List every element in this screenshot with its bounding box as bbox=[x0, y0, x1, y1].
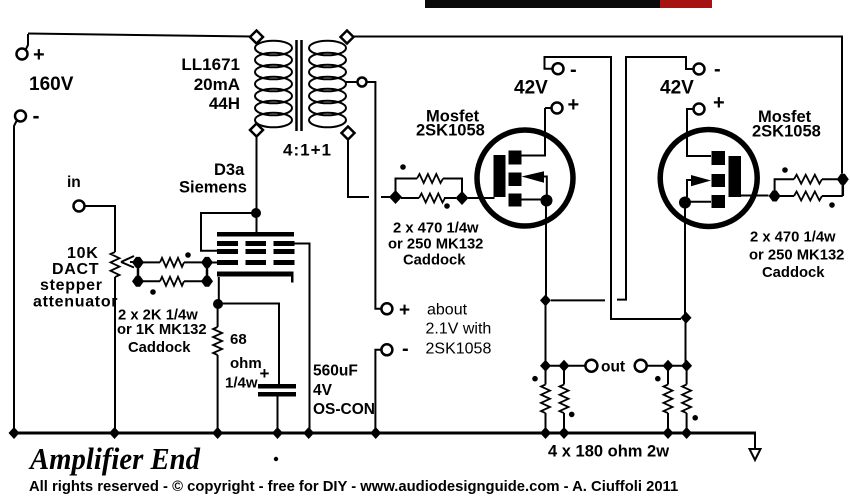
svg-text:-: - bbox=[570, 59, 577, 81]
svg-text:Caddock: Caddock bbox=[128, 340, 191, 356]
svg-text:4:1+1: 4:1+1 bbox=[283, 141, 332, 160]
svg-text:Caddock: Caddock bbox=[762, 265, 825, 281]
svg-text:20mA: 20mA bbox=[194, 75, 240, 94]
svg-text:or 250 MK132: or 250 MK132 bbox=[749, 248, 844, 264]
svg-text:or 250 MK132: or 250 MK132 bbox=[388, 237, 483, 253]
svg-text:68: 68 bbox=[230, 331, 247, 348]
svg-text:4 x 180 ohm 2w: 4 x 180 ohm 2w bbox=[548, 443, 669, 461]
svg-text:Amplifier End: Amplifier End bbox=[28, 442, 201, 476]
svg-text:44H: 44H bbox=[209, 94, 240, 113]
svg-text:All rights reserved - © copyri: All rights reserved - © copyright - free… bbox=[29, 479, 678, 495]
svg-text:+: + bbox=[399, 300, 410, 321]
svg-text:Caddock: Caddock bbox=[403, 253, 466, 269]
svg-text:DACT: DACT bbox=[52, 261, 99, 278]
svg-text:560uF: 560uF bbox=[313, 363, 358, 380]
svg-text:OS-CON: OS-CON bbox=[313, 401, 375, 418]
svg-text:-: - bbox=[402, 338, 409, 360]
svg-text:2SK1058: 2SK1058 bbox=[416, 122, 485, 140]
svg-text:out: out bbox=[601, 359, 625, 376]
svg-text:2SK1058: 2SK1058 bbox=[752, 123, 821, 141]
svg-text:-: - bbox=[714, 59, 721, 81]
svg-text:2SK1058: 2SK1058 bbox=[426, 341, 492, 358]
svg-text:or 1K MK132: or 1K MK132 bbox=[117, 322, 207, 338]
svg-text:+: + bbox=[33, 44, 45, 66]
svg-text:+: + bbox=[568, 94, 580, 116]
svg-text:4V: 4V bbox=[313, 382, 333, 399]
svg-text:LL1671: LL1671 bbox=[181, 55, 240, 74]
svg-text:+: + bbox=[260, 364, 270, 383]
svg-text:2.1V with: 2.1V with bbox=[426, 321, 492, 338]
svg-text:42V: 42V bbox=[660, 78, 694, 99]
svg-text:2 x 470 1/4w: 2 x 470 1/4w bbox=[750, 230, 836, 246]
svg-text:ohm: ohm bbox=[230, 355, 262, 372]
svg-text:Siemens: Siemens bbox=[179, 179, 247, 197]
svg-text:42V: 42V bbox=[514, 78, 548, 99]
svg-text:10K: 10K bbox=[67, 245, 98, 262]
svg-text:D3a: D3a bbox=[214, 161, 245, 179]
svg-text:about: about bbox=[427, 302, 468, 319]
svg-text:-: - bbox=[33, 105, 40, 128]
svg-text:attenuator: attenuator bbox=[33, 294, 118, 311]
svg-text:in: in bbox=[67, 174, 81, 191]
svg-text:2 x 470 1/4w: 2 x 470 1/4w bbox=[393, 221, 479, 237]
svg-text:+: + bbox=[713, 92, 725, 114]
svg-text:1/4w: 1/4w bbox=[225, 375, 258, 392]
svg-text:stepper: stepper bbox=[40, 277, 103, 294]
svg-text:160V: 160V bbox=[29, 74, 74, 95]
